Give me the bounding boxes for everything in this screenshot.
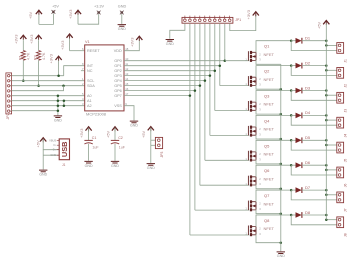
svg-text:GP4: GP4 — [114, 79, 122, 83]
wire A1-A2 tie — [63, 101, 65, 106]
svg-text:GP1: GP1 — [114, 64, 122, 68]
transistor Q6 — [247, 176, 249, 186]
svg-text:VSS: VSS — [114, 104, 122, 108]
junction GP4 — [204, 79, 207, 82]
wire gate Q3 — [215, 110, 250, 112]
junction — [290, 89, 293, 92]
svg-text:+3V3: +3V3 — [49, 53, 54, 63]
svg-text:Q7: Q7 — [264, 193, 270, 198]
wire GP7 row — [124, 95, 190, 97]
supply +3V3 arrow VDD — [124, 40, 139, 51]
wire header vertical GP1 — [219, 23, 221, 85]
connector USB — [59, 139, 69, 160]
junction — [325, 164, 328, 167]
svg-text:+3V3: +3V3 — [29, 34, 34, 44]
supply +3V3 arrow for R2 — [36, 35, 42, 39]
wire drain Q6 — [256, 165, 291, 177]
svg-text:A0: A0 — [87, 94, 92, 98]
svg-text:+3.3V: +3.3V — [94, 5, 104, 9]
wire source Q1 — [256, 60, 281, 64]
svg-text:GND: GND — [118, 27, 126, 31]
svg-text:D4: D4 — [305, 110, 311, 115]
svg-text:GND: GND — [166, 42, 174, 46]
svg-text:SDA: SDA — [87, 84, 95, 88]
wire — [78, 14, 99, 24]
wire drain Q1 — [256, 41, 291, 53]
supply +3V3 arrow header — [253, 12, 259, 16]
svg-text:GP7: GP7 — [114, 94, 122, 98]
resistor R2 — [38, 40, 40, 50]
ground — [277, 252, 285, 254]
svg-text:+5V: +5V — [36, 140, 41, 148]
connector JP1 — [182, 17, 233, 23]
wire header vertical GP2 — [214, 23, 216, 110]
junction — [325, 144, 328, 147]
wire header vertical GP7 — [189, 23, 191, 235]
svg-text:D-: D- — [53, 143, 56, 147]
wire R2 to SDA row — [38, 60, 40, 85]
diode D3 — [291, 90, 295, 92]
wire row8 — [12, 110, 58, 112]
svg-text:+5V: +5V — [141, 130, 146, 138]
wire source Q2 — [256, 85, 281, 89]
svg-text:1uF: 1uF — [119, 146, 126, 150]
svg-text:NFET: NFET — [264, 176, 275, 181]
wire drain Q7 — [256, 190, 291, 202]
svg-text:Q4: Q4 — [264, 118, 270, 123]
wire row6 A1 — [12, 100, 85, 102]
supply +3V3 arrow — [75, 10, 81, 14]
wire +5V rail — [325, 24, 327, 220]
wire drain Q3 — [256, 91, 291, 103]
transistor Q5 — [247, 151, 249, 161]
wire — [70, 50, 85, 52]
junction — [37, 84, 40, 87]
svg-text:+5V: +5V — [28, 11, 33, 19]
svg-text:1uF: 1uF — [92, 146, 99, 150]
svg-text:MCP23008: MCP23008 — [86, 112, 107, 117]
wire VSS to ground — [124, 106, 134, 121]
supply +5V arrow USB — [40, 138, 46, 142]
capacitor C2 — [114, 128, 116, 140]
junction — [325, 89, 328, 92]
wire diode cathode to rail — [302, 214, 326, 216]
wire NC stub — [81, 70, 85, 72]
wire GP4 row — [124, 80, 205, 82]
wire to connector J1 bottom pin — [291, 41, 337, 51]
wire address tie — [57, 96, 59, 116]
wire R1 to SCL row — [22, 60, 24, 80]
svg-text:USB: USB — [60, 141, 69, 157]
wire source rail — [280, 64, 282, 251]
ground — [54, 116, 62, 118]
supply +5V arrow rail — [323, 21, 329, 25]
svg-text:J3: J3 — [344, 109, 348, 113]
svg-text:RESET: RESET — [87, 49, 100, 53]
wire to connector J6 bottom pin — [291, 165, 337, 175]
svg-text:A1: A1 — [87, 99, 92, 103]
svg-text:C1: C1 — [92, 136, 97, 140]
svg-text:GP3: GP3 — [114, 74, 122, 78]
wire diode cathode to rail — [302, 139, 326, 141]
junction — [290, 189, 293, 192]
wire diode cathode to rail — [302, 189, 326, 191]
diode D5 — [291, 139, 295, 141]
wire diode cathode to rail — [302, 164, 326, 166]
wire diode cathode to rail — [302, 90, 326, 92]
wire rail to connector J3 top pin — [326, 94, 337, 96]
svg-text:SCL: SCL — [87, 79, 94, 83]
wire to connector J4 bottom pin — [291, 115, 337, 125]
junction — [325, 139, 328, 142]
svg-text:GND: GND — [147, 166, 155, 170]
svg-text:4.7K: 4.7K — [27, 52, 31, 60]
svg-text:Q2: Q2 — [264, 69, 270, 74]
svg-text:D1: D1 — [305, 36, 311, 41]
svg-text:GP5: GP5 — [114, 84, 122, 88]
junction GP3 — [209, 74, 212, 77]
supply GND node — [121, 11, 124, 14]
svg-text:Q1: Q1 — [264, 44, 270, 49]
svg-text:D3: D3 — [305, 85, 311, 90]
wire USB power — [43, 139, 59, 150]
wire source Q4 — [256, 135, 281, 139]
svg-text:NFET: NFET — [264, 102, 275, 107]
ground — [84, 161, 92, 163]
wire GP0 row — [124, 60, 225, 62]
junction — [290, 64, 293, 67]
wire GP6 row — [124, 90, 195, 92]
supply +3.3V node — [97, 11, 100, 14]
junction — [325, 69, 328, 72]
wire — [39, 14, 54, 25]
wire header pin10 to +3V3 — [230, 15, 256, 31]
junction — [325, 189, 328, 192]
svg-text:+3V3: +3V3 — [79, 128, 84, 138]
wire header vertical GP3 — [209, 23, 211, 135]
svg-text:GND: GND — [39, 173, 47, 177]
svg-text:INT: INT — [87, 64, 94, 68]
transistor Q7 — [247, 201, 249, 211]
svg-text:GP0: GP0 — [114, 59, 122, 63]
svg-text:NFET: NFET — [264, 152, 275, 157]
svg-text:GND: GND — [50, 153, 56, 157]
wire rail to connector J1 top pin — [326, 44, 337, 46]
wire — [150, 128, 152, 163]
svg-text:NFET: NFET — [264, 77, 275, 82]
wire rail to connector J6 top pin — [326, 169, 337, 171]
wire header vertical GP4 — [204, 23, 206, 160]
capacitor C1 — [88, 128, 90, 140]
svg-text:D2: D2 — [305, 60, 311, 65]
ground — [130, 121, 138, 123]
junction — [325, 114, 328, 117]
wire row1 to INT — [12, 75, 64, 77]
junction GP6 — [194, 89, 197, 92]
svg-text:+3V3: +3V3 — [246, 9, 251, 19]
wire drain Q4 — [256, 115, 291, 127]
svg-text:D8: D8 — [305, 210, 311, 215]
svg-text:GND: GND — [85, 164, 93, 168]
wire drain Q5 — [256, 140, 291, 152]
connector J2 — [337, 68, 344, 79]
svg-text:NFET: NFET — [264, 201, 275, 206]
svg-text:NFET: NFET — [264, 127, 275, 132]
wire rail to connector J4 top pin — [326, 119, 337, 121]
svg-text:GND: GND — [277, 254, 285, 258]
wire header vertical GP6 — [194, 23, 196, 210]
svg-text:D7: D7 — [305, 185, 311, 190]
svg-text:VDD: VDD — [114, 49, 122, 53]
wire gate Q4 — [210, 134, 249, 136]
wire gate Q8 — [190, 234, 249, 236]
wire source Q5 — [256, 160, 281, 164]
supply +5V arrow — [36, 10, 42, 14]
junction — [325, 39, 328, 42]
svg-text:GND: GND — [130, 123, 138, 127]
svg-text:Q6: Q6 — [264, 168, 270, 173]
wire row7 A2 — [12, 105, 85, 107]
wire USB ground — [43, 154, 59, 156]
wire — [121, 14, 123, 24]
junction — [290, 164, 293, 167]
svg-text:J1: J1 — [344, 59, 348, 63]
wire gate Q7 — [195, 209, 249, 211]
svg-text:JP1: JP1 — [235, 18, 241, 22]
svg-text:+3V3: +3V3 — [130, 37, 135, 47]
wire to connector J3 bottom pin — [291, 91, 337, 101]
transistor Q1 — [247, 51, 249, 61]
junction GP0 — [224, 59, 227, 62]
connector J4 — [337, 117, 344, 128]
wire header pin1 to ground — [170, 23, 185, 39]
svg-text:+5V: +5V — [105, 130, 110, 138]
wire diode cathode to rail — [302, 65, 326, 67]
svg-text:R1: R1 — [18, 55, 22, 60]
connector J6 — [337, 167, 344, 178]
svg-text:Q5: Q5 — [264, 143, 270, 148]
diode D7 — [291, 189, 295, 191]
svg-text:+3V3: +3V3 — [14, 34, 19, 44]
wire row2 SCL — [12, 80, 85, 82]
wire row3 SDA — [12, 85, 85, 87]
wire row4 — [12, 86, 64, 91]
supply +3V3 arrow row1 — [56, 56, 62, 60]
wire row5 A0 — [12, 95, 85, 97]
transistor Q2 — [247, 76, 249, 86]
transistor Q4 — [247, 126, 249, 135]
svg-text:GND: GND — [54, 118, 62, 122]
junction — [325, 94, 328, 97]
wire source Q6 — [256, 185, 281, 189]
wire gate Q2 — [220, 85, 250, 87]
junction — [325, 194, 328, 197]
transistor Q8 — [247, 226, 249, 236]
wire source Q7 — [256, 209, 281, 213]
svg-text:NFET: NFET — [264, 226, 275, 231]
svg-text:+3V3: +3V3 — [68, 9, 73, 19]
ground — [111, 161, 119, 163]
diode D1 — [291, 40, 295, 42]
svg-text:J4: J4 — [344, 134, 348, 138]
connector JP2 — [6, 73, 12, 114]
wire rail to connector J2 top pin — [326, 69, 337, 71]
svg-text:+3V3: +3V3 — [60, 40, 65, 50]
diode D8 — [291, 214, 295, 216]
connector J7 — [337, 192, 344, 203]
wire rail to connector J5 top pin — [326, 144, 337, 146]
connector J1 — [337, 43, 344, 54]
wire source Q8 — [256, 234, 281, 242]
junction — [325, 119, 328, 122]
connector J3 — [337, 92, 344, 103]
svg-text:GND: GND — [118, 5, 127, 9]
svg-text:A2: A2 — [87, 104, 92, 108]
wire to connector J8 bottom pin — [291, 215, 337, 225]
supply +3V3 arrow C1 — [86, 127, 92, 131]
resistor R1 — [22, 40, 24, 50]
supply +5V node — [52, 11, 55, 14]
svg-text:J7: J7 — [344, 208, 348, 212]
connector J5 — [337, 142, 344, 153]
wire GP2 row — [124, 70, 215, 72]
ground — [166, 40, 174, 42]
junction — [290, 214, 293, 217]
wire header vertical GP0 — [224, 23, 226, 61]
svg-text:JP3: JP3 — [160, 152, 164, 158]
supply +3V3 arrow for R1 — [20, 35, 26, 39]
wire diode cathode to rail — [302, 40, 326, 42]
junction — [325, 214, 328, 217]
svg-text:NFET: NFET — [264, 52, 275, 57]
connector JP3 — [155, 137, 162, 148]
junction — [325, 218, 328, 221]
svg-text:J2: J2 — [344, 84, 348, 88]
wire header vertical GP5 — [199, 23, 201, 185]
svg-text:4.7K: 4.7K — [42, 52, 46, 60]
junction — [290, 139, 293, 142]
svg-text:D6: D6 — [305, 160, 311, 165]
diode D2 — [291, 65, 295, 67]
svg-text:J1: J1 — [62, 163, 66, 167]
svg-text:NC: NC — [87, 69, 93, 73]
svg-text:JP2: JP2 — [6, 113, 10, 119]
svg-text:GP6: GP6 — [114, 89, 122, 93]
op-amp U1 MCP23008 — [85, 45, 124, 111]
svg-text:VBUS: VBUS — [49, 139, 56, 143]
svg-text:Q8: Q8 — [264, 218, 270, 223]
svg-text:C2: C2 — [118, 136, 123, 140]
junction — [22, 79, 25, 82]
junction — [290, 39, 293, 42]
junction — [325, 44, 328, 47]
transistor Q3 — [247, 101, 249, 111]
junction — [57, 74, 60, 77]
wire GP3 row — [124, 75, 210, 77]
wire to connector J5 bottom pin — [291, 140, 337, 150]
svg-text:J8: J8 — [344, 233, 348, 237]
wire gate Q1 — [225, 60, 250, 62]
wire source Q3 — [256, 110, 281, 114]
svg-text:J6: J6 — [344, 184, 348, 188]
wire rail to connector J8 top pin — [326, 219, 337, 221]
svg-text:D5: D5 — [305, 135, 311, 140]
junction GP7 — [189, 94, 192, 97]
diode D4 — [291, 114, 295, 116]
supply +3V3 arrow RESET — [67, 34, 73, 38]
svg-text:J5: J5 — [344, 159, 348, 163]
wire GP1 row — [124, 65, 220, 67]
ground — [118, 25, 126, 27]
wire drain Q2 — [256, 66, 291, 78]
junction — [290, 114, 293, 117]
wire to connector J7 bottom pin — [291, 190, 337, 200]
svg-text:V1: V1 — [85, 40, 90, 44]
svg-text:GND: GND — [111, 164, 119, 168]
junction — [325, 64, 328, 67]
junction — [62, 84, 65, 87]
wire gate Q5 — [205, 159, 249, 161]
supply +5V arrow C2 — [112, 127, 118, 131]
diode D6 — [291, 164, 295, 166]
wire rail to connector J7 top pin — [326, 194, 337, 196]
svg-text:+5V: +5V — [52, 5, 59, 9]
supply +5V arrow JP3 — [148, 127, 154, 131]
wire drain Q8 — [256, 215, 291, 227]
wire to connector J2 bottom pin — [291, 66, 337, 76]
junction GP5 — [199, 84, 202, 87]
wire gate Q6 — [200, 184, 249, 186]
junction GP1 — [219, 64, 222, 67]
svg-text:Q3: Q3 — [264, 94, 270, 99]
svg-text:GP2: GP2 — [114, 69, 122, 73]
svg-text:D+: D+ — [53, 148, 57, 152]
junction — [325, 169, 328, 172]
wire GP5 row — [124, 85, 200, 87]
junction GP2 — [214, 69, 217, 72]
ground — [147, 164, 155, 166]
svg-text:+5V: +5V — [316, 21, 321, 29]
svg-text:R2: R2 — [34, 55, 38, 60]
wire diode cathode to rail — [302, 114, 326, 116]
ground — [39, 170, 47, 172]
connector J8 — [337, 217, 344, 228]
